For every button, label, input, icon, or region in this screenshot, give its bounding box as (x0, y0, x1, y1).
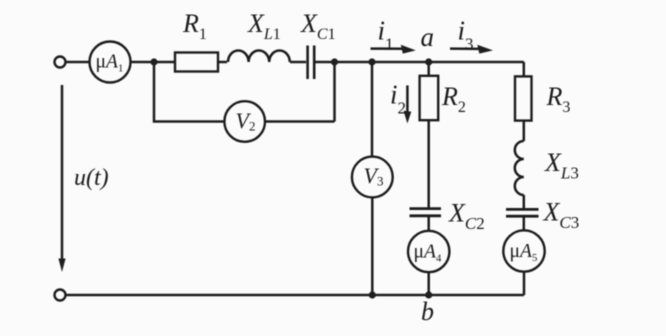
svg-text:i2: i2 (390, 80, 406, 118)
svg-text:R2: R2 (441, 82, 466, 116)
svg-text:R3: R3 (546, 82, 571, 116)
svg-text:V3: V3 (364, 163, 384, 189)
svg-text:XC2: XC2 (448, 199, 485, 234)
svg-text:XC1: XC1 (300, 9, 336, 43)
svg-text:XC3: XC3 (543, 198, 580, 233)
svg-text:u(t): u(t) (74, 165, 109, 191)
svg-text:XL1: XL1 (247, 9, 281, 43)
svg-text:V2: V2 (236, 108, 256, 134)
svg-text:μA4: μA4 (414, 242, 442, 265)
svg-text:b: b (421, 297, 434, 326)
svg-text:a: a (421, 22, 435, 52)
svg-text:μA5: μA5 (510, 241, 538, 264)
svg-text:μA1: μA1 (96, 52, 124, 75)
svg-text:R1: R1 (182, 9, 207, 43)
svg-text:XL3: XL3 (544, 148, 579, 183)
